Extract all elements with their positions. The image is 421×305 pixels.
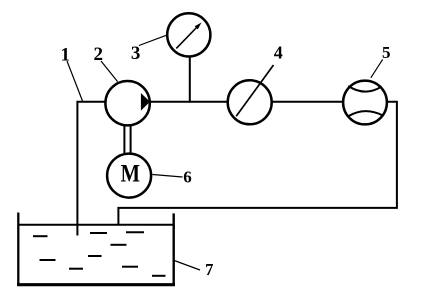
svg-text:M: M (121, 159, 140, 188)
svg-text:3: 3 (131, 43, 141, 64)
leader line 5 (371, 60, 383, 78)
wire: suction line from tank up to pump inlet (76, 102, 106, 236)
throttle valve 4 circle (228, 80, 272, 124)
shaft double line pump-motor (124, 125, 130, 154)
gauge needle (176, 25, 199, 48)
water dash 9 (152, 275, 166, 277)
water dash 2 (90, 232, 107, 234)
pump 2 circle (105, 81, 149, 125)
water dash 3 (126, 231, 144, 233)
leader line 6 (153, 175, 183, 178)
tank bottom (17, 283, 175, 286)
svg-text:7: 7 (205, 260, 213, 279)
gauge needle arrowhead (195, 23, 202, 30)
svg-text:6: 6 (183, 167, 192, 186)
wire: gauge stem (189, 56, 191, 103)
tank right wall (172, 213, 174, 286)
water dash 6 (88, 255, 102, 257)
flow meter bottom arc (349, 111, 382, 116)
svg-text:1: 1 (60, 45, 70, 66)
motor circle (107, 154, 151, 198)
leader line 2 (101, 61, 118, 82)
water dash 8 (122, 266, 138, 268)
wire: valve 4 to flow meter 5 (272, 101, 344, 103)
leader line 7 (174, 261, 200, 271)
wire: flow meter to return line into tank (118, 102, 397, 225)
tank water surface line (18, 224, 174, 226)
svg-text:5: 5 (382, 43, 391, 62)
pump direction triangle (141, 93, 150, 111)
leader line 3 (139, 35, 166, 45)
wire: pump outlet to valve 4 (150, 101, 228, 103)
svg-text:4: 4 (274, 43, 283, 63)
water dash 4 (111, 244, 127, 246)
water dash 1 (33, 235, 48, 237)
leader line 1 (67, 61, 83, 101)
flow meter 5 circle (343, 81, 387, 125)
pressure gauge 3 circle (167, 13, 210, 56)
flow meter top arc (348, 86, 382, 92)
valve diagonal / leader to label 4 (236, 65, 273, 116)
water dash 7 (69, 268, 83, 270)
tank left wall (17, 213, 19, 287)
water dash 5 (40, 259, 56, 261)
